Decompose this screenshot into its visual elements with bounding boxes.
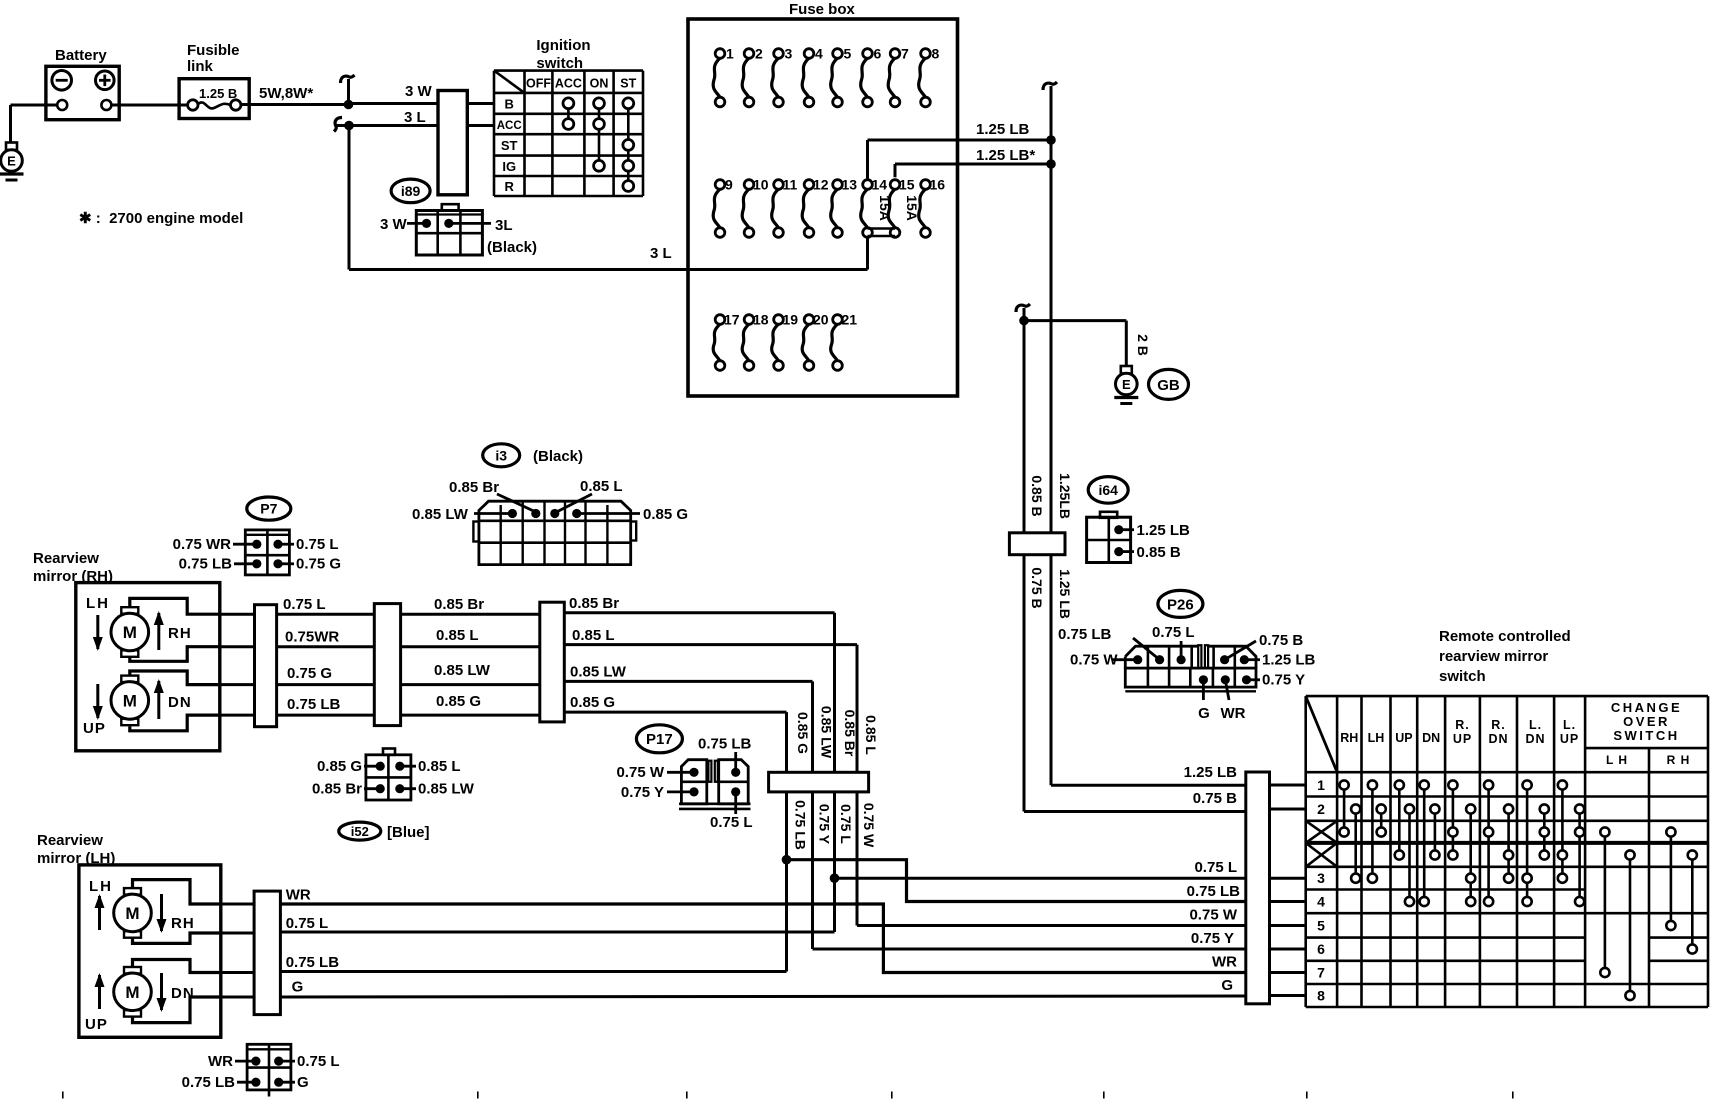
fuse 3 bbox=[772, 58, 779, 97]
i3 side tabs bbox=[473, 522, 479, 542]
fuse 19 bbox=[772, 324, 779, 361]
svg-text:4: 4 bbox=[1317, 894, 1325, 910]
svg-text:0.75 B: 0.75 B bbox=[1259, 632, 1303, 649]
junction 1.25LB* bbox=[1046, 159, 1056, 169]
P17 pin 0.75LB bbox=[731, 768, 740, 777]
arrow LH (down) bbox=[96, 615, 99, 649]
motor2 wiring bbox=[130, 671, 220, 731]
svg-text:15A: 15A bbox=[904, 195, 920, 221]
wire 0.85LW/0.75Y vertical bbox=[811, 681, 814, 772]
connector P7 bbox=[245, 530, 289, 575]
svg-text:i52: i52 bbox=[351, 824, 369, 839]
fuse 21 bbox=[831, 324, 838, 361]
i52 pin 0.85G bbox=[376, 762, 385, 771]
svg-text:1.25 LB: 1.25 LB bbox=[1137, 522, 1191, 539]
svg-text:0.75 L: 0.75 L bbox=[283, 596, 326, 613]
svg-text:0.85 Br: 0.85 Br bbox=[434, 596, 484, 613]
svg-text:15A: 15A bbox=[877, 195, 893, 221]
svg-text:0.85 B: 0.85 B bbox=[1029, 475, 1045, 516]
svg-text:7: 7 bbox=[1317, 965, 1325, 981]
fuse 15 bbox=[888, 189, 895, 228]
contact chain CO-LH b bbox=[1629, 855, 1632, 996]
connector i52 oval bbox=[339, 822, 381, 840]
svg-text:18: 18 bbox=[753, 312, 769, 328]
hook 0.85B top bbox=[1016, 304, 1030, 312]
svg-text:0.75 B: 0.75 B bbox=[1193, 790, 1237, 807]
fuse 8 bbox=[919, 58, 926, 97]
svg-text:6: 6 bbox=[874, 46, 882, 62]
svg-text:L H: L H bbox=[1606, 753, 1628, 767]
RH mirror connector bar 1 bbox=[220, 613, 255, 616]
inline connector bar (mirror harness) bbox=[769, 772, 869, 792]
wire 0.85G bbox=[564, 711, 786, 714]
svg-text:0.75 L: 0.75 L bbox=[710, 814, 753, 831]
svg-text:M: M bbox=[125, 983, 139, 1002]
i89 pin 3L bbox=[444, 219, 453, 228]
wire connector to ignition ACC bbox=[467, 124, 494, 127]
svg-text:UP: UP bbox=[83, 720, 106, 737]
fuse 14 bbox=[861, 189, 868, 228]
fuse 11 bbox=[772, 189, 779, 228]
svg-text:DN: DN bbox=[168, 694, 192, 711]
svg-text:RH: RH bbox=[171, 915, 195, 932]
svg-text:0.75 LB: 0.75 LB bbox=[698, 736, 752, 753]
svg-text:0.85 Br: 0.85 Br bbox=[312, 781, 362, 798]
svg-text:0.85 G: 0.85 G bbox=[795, 712, 811, 754]
fuse 1 bbox=[713, 58, 720, 97]
svg-text:3: 3 bbox=[1317, 870, 1325, 886]
svg-text:i64: i64 bbox=[1098, 482, 1118, 498]
svg-text:P17: P17 bbox=[646, 731, 673, 748]
wire connector to ignition B bbox=[467, 102, 494, 105]
svg-text:ST: ST bbox=[620, 77, 636, 91]
svg-text:DN: DN bbox=[1422, 731, 1440, 745]
svg-text:L.: L. bbox=[1563, 718, 1576, 732]
ground E (GB) bbox=[1121, 366, 1132, 374]
P7 pin 0.75L bbox=[273, 540, 282, 549]
fuse 2 bbox=[742, 58, 749, 97]
svg-text:0.75 Y: 0.75 Y bbox=[1262, 672, 1305, 689]
i52 pin 0.85L bbox=[395, 762, 404, 771]
P7 pin 0.75WR bbox=[252, 540, 261, 549]
svg-text:0.85 Br: 0.85 Br bbox=[449, 479, 499, 496]
svg-text:0.85 B: 0.85 B bbox=[1137, 544, 1181, 561]
motor RH-horizontal (M) bbox=[121, 607, 138, 614]
pin 0.75L bbox=[274, 1057, 283, 1066]
fuse 9 bbox=[713, 189, 720, 228]
svg-text:1.25 LB: 1.25 LB bbox=[1057, 569, 1073, 619]
ignition switch connector bbox=[438, 91, 467, 195]
P26 pin 0.75B bbox=[1220, 655, 1229, 664]
svg-text:0.85 LW: 0.85 LW bbox=[434, 662, 491, 679]
svg-text:0.75 W: 0.75 W bbox=[1189, 907, 1237, 924]
svg-text:[Blue]: [Blue] bbox=[387, 824, 430, 841]
connector P7 oval bbox=[247, 497, 291, 520]
junction 1.25LB bbox=[1046, 135, 1056, 145]
svg-text:0.85 G: 0.85 G bbox=[436, 693, 481, 710]
contact chain CO-LH a bbox=[1604, 832, 1607, 973]
svg-text:UP: UP bbox=[85, 1016, 108, 1033]
svg-text:0.75 Y: 0.75 Y bbox=[816, 804, 832, 845]
wires bar2-bar3 bbox=[401, 613, 540, 616]
svg-text:11: 11 bbox=[783, 177, 798, 193]
contact chain R.UP right bbox=[1469, 809, 1472, 902]
ignition switch table bbox=[494, 71, 643, 196]
wire 1.25LB vertical (right) bbox=[1050, 86, 1053, 785]
connector P17 oval bbox=[636, 725, 682, 753]
arrow DN (up) bbox=[157, 681, 160, 719]
svg-text:0.85 L: 0.85 L bbox=[436, 627, 479, 644]
svg-text:0.75 WR: 0.75 WR bbox=[173, 536, 232, 553]
svg-text:LH: LH bbox=[86, 595, 110, 612]
junction 0.75LB bbox=[782, 855, 792, 865]
svg-text:0.75 G: 0.75 G bbox=[296, 556, 341, 573]
connector i3 bbox=[479, 501, 631, 564]
wire 0.75L down to LH mirror bbox=[280, 931, 834, 934]
svg-text:6: 6 bbox=[1317, 941, 1325, 957]
svg-text:1.25LB: 1.25LB bbox=[1057, 473, 1073, 519]
svg-text:i3: i3 bbox=[495, 447, 507, 463]
ground E (battery) bbox=[6, 143, 17, 151]
connector i89 bbox=[442, 204, 459, 210]
contact chain L.UP left bbox=[1561, 785, 1564, 878]
i52 pin 0.85LW bbox=[395, 784, 404, 793]
i3 pin 0.85G bbox=[572, 509, 581, 518]
svg-text:1.25 B: 1.25 B bbox=[199, 86, 237, 101]
svg-text:i89: i89 bbox=[401, 183, 421, 199]
P26 key slot bbox=[1198, 645, 1201, 668]
wire 0.85LW bbox=[564, 680, 812, 683]
svg-text:3L: 3L bbox=[495, 217, 513, 234]
wire 0.75L to switch row3 bbox=[835, 877, 1246, 880]
contact chain UP left bbox=[1398, 785, 1401, 855]
svg-text:P7: P7 bbox=[260, 501, 277, 517]
ignition contact chain ST column bbox=[627, 103, 630, 186]
svg-text:2 B: 2 B bbox=[1135, 334, 1151, 356]
svg-text:2: 2 bbox=[1317, 801, 1325, 817]
svg-text:16: 16 bbox=[930, 177, 946, 193]
wire WR from LH mirror to switch row7 bbox=[280, 904, 1245, 973]
junction 2B branch bbox=[1019, 316, 1029, 326]
wire 0.85B vertical (left) bbox=[1023, 308, 1026, 812]
P26 pin 0.75LB bbox=[1155, 655, 1164, 664]
i3 pin 0.85L bbox=[550, 509, 559, 518]
fuse 17 bbox=[713, 324, 720, 361]
svg-text:1.25 LB: 1.25 LB bbox=[1262, 652, 1316, 669]
svg-text:M: M bbox=[123, 623, 137, 642]
svg-text:0.75 L: 0.75 L bbox=[296, 536, 339, 553]
svg-text:Rearview: Rearview bbox=[37, 832, 103, 849]
contact chain CO-RH b bbox=[1691, 855, 1694, 949]
svg-text:1.25 LB: 1.25 LB bbox=[1184, 764, 1238, 781]
svg-text:0.75 W: 0.75 W bbox=[1070, 652, 1118, 669]
svg-text:3 L: 3 L bbox=[650, 245, 672, 262]
svg-text:Fusible: Fusible bbox=[187, 42, 240, 59]
LH motor1 wiring bbox=[133, 880, 221, 944]
svg-text:0.85 Br: 0.85 Br bbox=[842, 710, 858, 757]
svg-text:DN: DN bbox=[1525, 732, 1545, 746]
connector i89 oval bbox=[391, 179, 430, 203]
svg-text:0.85 LW: 0.85 LW bbox=[418, 781, 475, 798]
svg-text:UP: UP bbox=[1395, 731, 1412, 745]
wire 1.25LB* from fuse 15 bbox=[894, 164, 897, 177]
svg-text:G: G bbox=[297, 1074, 309, 1091]
wire 0.75W to switch row5 bbox=[857, 924, 1246, 927]
svg-text:IG: IG bbox=[502, 159, 516, 174]
contact chain LH left bbox=[1371, 785, 1374, 878]
P26 pin 1.25LB bbox=[1240, 655, 1249, 664]
svg-text:0.85 G: 0.85 G bbox=[570, 694, 615, 711]
svg-text:GB: GB bbox=[1157, 377, 1180, 394]
contact chain L.DN left bbox=[1526, 785, 1529, 902]
connector continuation hook (5W,8W*) bbox=[347, 79, 350, 105]
connector i52 bbox=[383, 749, 395, 755]
fuse 20 bbox=[802, 324, 809, 361]
wire 1.25LB to switch row1 bbox=[1051, 784, 1246, 787]
P26 lower row bbox=[1125, 668, 1256, 687]
svg-text:5: 5 bbox=[1317, 918, 1325, 934]
contact chain R.UP left bbox=[1452, 785, 1455, 855]
svg-text:M: M bbox=[125, 904, 139, 923]
svg-text:8: 8 bbox=[932, 46, 940, 62]
svg-text:G: G bbox=[1198, 705, 1210, 722]
svg-text:G: G bbox=[292, 979, 304, 996]
wire 0.85Br bbox=[564, 611, 834, 614]
wire 0.85L/0.75W vertical bbox=[856, 645, 859, 773]
svg-text:17: 17 bbox=[724, 312, 740, 328]
svg-text:0.75 LB: 0.75 LB bbox=[287, 696, 341, 713]
svg-text:15: 15 bbox=[899, 177, 915, 193]
svg-text:8: 8 bbox=[1317, 988, 1325, 1004]
svg-text:14: 14 bbox=[872, 177, 888, 193]
motor1 wiring bbox=[130, 598, 220, 661]
svg-text:2: 2 bbox=[755, 46, 763, 62]
switch connector bar bbox=[1246, 772, 1270, 1004]
svg-text:✱ : 2700 engine model: ✱ : 2700 engine model bbox=[79, 210, 243, 227]
svg-text:(Black): (Black) bbox=[487, 239, 537, 256]
svg-text:0.75 W: 0.75 W bbox=[861, 803, 877, 848]
battery bbox=[46, 66, 119, 119]
svg-text:0.75 LB: 0.75 LB bbox=[1058, 626, 1112, 643]
svg-text:0.85 LW: 0.85 LW bbox=[570, 664, 627, 681]
contact chain DN right bbox=[1434, 809, 1437, 855]
arrow up (left) bbox=[98, 896, 101, 930]
i3 pin 0.85LW bbox=[508, 509, 517, 518]
svg-text:0.85 G: 0.85 G bbox=[643, 506, 688, 523]
bottom connector (LH mirror pins) bbox=[247, 1044, 291, 1090]
svg-text:WR: WR bbox=[1221, 705, 1246, 722]
motor LH-vertical (M) bbox=[124, 967, 141, 974]
connector i64 oval bbox=[1088, 477, 1128, 504]
contact chain R.DN right bbox=[1507, 809, 1510, 878]
svg-text:0.75 G: 0.75 G bbox=[287, 665, 332, 682]
svg-text:WR: WR bbox=[208, 1053, 233, 1070]
P17 key slot bbox=[708, 761, 711, 782]
svg-text:0.75 W: 0.75 W bbox=[616, 764, 664, 781]
X row markers bbox=[1306, 821, 1337, 843]
svg-text:0.75WR: 0.75WR bbox=[285, 629, 339, 646]
P7 pin 0.75G bbox=[273, 559, 282, 568]
wire G from LH mirror to switch row8 bbox=[280, 996, 1245, 997]
i52 pin 0.85Br bbox=[376, 784, 385, 793]
svg-text:RH: RH bbox=[1340, 731, 1358, 745]
arrow UP (down-arrow left) bbox=[96, 684, 99, 718]
svg-text:ON: ON bbox=[590, 77, 609, 91]
fusible link 1.25B bbox=[179, 79, 249, 119]
junction (3W) bbox=[344, 100, 354, 110]
svg-text:OFF: OFF bbox=[526, 77, 551, 91]
arrow down (right2) bbox=[160, 973, 163, 1010]
svg-text:0.75 L: 0.75 L bbox=[297, 1053, 340, 1070]
i3 pin 0.85Br bbox=[531, 509, 540, 518]
scan tick marks (page bottom) bbox=[62, 1092, 64, 1099]
wire 3L bottom run to fuse 14 bbox=[349, 268, 868, 271]
i64 pin 1.25LB bbox=[1114, 525, 1123, 534]
contact chain RH right bbox=[1354, 809, 1357, 878]
connector i64 bbox=[1100, 512, 1117, 518]
P26 pin 0.75W bbox=[1133, 655, 1142, 664]
svg-text:5W,8W*: 5W,8W* bbox=[259, 85, 313, 102]
P26 pin 0.75Y bbox=[1242, 675, 1251, 684]
svg-text:3: 3 bbox=[785, 46, 793, 62]
svg-text:0.75 LB: 0.75 LB bbox=[1187, 883, 1241, 900]
svg-text:E: E bbox=[7, 154, 16, 169]
svg-text:4: 4 bbox=[815, 46, 823, 62]
svg-text:switch: switch bbox=[536, 55, 583, 72]
rearview mirror LH box bbox=[79, 865, 221, 1037]
svg-text:Fuse box: Fuse box bbox=[789, 1, 856, 18]
pin 0.75LB bbox=[251, 1078, 260, 1087]
i89 pin 3W bbox=[422, 219, 431, 228]
svg-text:1.25 LB*: 1.25 LB* bbox=[976, 147, 1035, 164]
wire 0.75Y to switch row6 bbox=[813, 948, 1246, 951]
fuse 18 bbox=[742, 324, 749, 361]
remote mirror switch table bbox=[1306, 696, 1708, 1007]
wire battery negative to ground bbox=[11, 104, 58, 107]
contact chain DN left bbox=[1423, 785, 1426, 902]
P26 pin 0.75L bbox=[1177, 655, 1186, 664]
connector P17 bbox=[681, 760, 706, 804]
svg-text:R.: R. bbox=[1491, 718, 1506, 732]
table header diagonal bbox=[1306, 696, 1337, 772]
svg-text:0.75 L: 0.75 L bbox=[286, 915, 329, 932]
svg-text:M: M bbox=[123, 691, 137, 710]
fuse 16 bbox=[919, 189, 926, 228]
svg-text:R H: R H bbox=[1667, 753, 1691, 767]
pin G bbox=[274, 1078, 283, 1087]
svg-text:0.75 LB: 0.75 LB bbox=[286, 954, 340, 971]
svg-text:Battery: Battery bbox=[55, 47, 107, 64]
svg-text:0.75 Y: 0.75 Y bbox=[621, 784, 664, 801]
svg-text:12: 12 bbox=[813, 177, 829, 193]
arrow RH (up) bbox=[157, 613, 160, 650]
svg-text:9: 9 bbox=[725, 177, 733, 193]
arrow up (left2) bbox=[98, 975, 101, 1009]
svg-text:0.75 LB: 0.75 LB bbox=[792, 800, 808, 850]
svg-text:LH: LH bbox=[89, 878, 113, 895]
svg-text:0.85 L: 0.85 L bbox=[418, 758, 461, 775]
inline connector (1.25LB / 0.85B) bbox=[1009, 533, 1065, 555]
junction 0.75L bbox=[830, 873, 840, 883]
svg-text:UP: UP bbox=[1453, 732, 1472, 746]
svg-text:P26: P26 bbox=[1167, 596, 1194, 613]
ignition contact chain ACC column bbox=[567, 103, 570, 124]
svg-text:G: G bbox=[1221, 977, 1233, 994]
ground designator GB bbox=[1149, 369, 1189, 399]
svg-text:R: R bbox=[505, 179, 515, 194]
contact chain LH right bbox=[1380, 809, 1383, 832]
contact chain RH left bbox=[1343, 785, 1346, 832]
connector P26 oval bbox=[1158, 590, 1203, 617]
svg-text:0.75 LB: 0.75 LB bbox=[179, 556, 233, 573]
svg-text:0.75 B: 0.75 B bbox=[1029, 567, 1045, 608]
P17 pin 0.75L bbox=[731, 787, 740, 796]
svg-text:0.85 LW: 0.85 LW bbox=[412, 506, 469, 523]
fuse 5 bbox=[831, 58, 838, 97]
arrow down (right) bbox=[160, 894, 163, 931]
svg-text:3 W: 3 W bbox=[405, 83, 433, 100]
P26 pin G bbox=[1199, 675, 1208, 684]
svg-text:0.85 LW: 0.85 LW bbox=[818, 706, 834, 759]
svg-text:ACC: ACC bbox=[497, 120, 522, 132]
wire 0.85L bbox=[564, 643, 857, 646]
svg-text:R.: R. bbox=[1455, 718, 1470, 732]
wire battery positive to fusible link bbox=[111, 104, 187, 107]
fuse 6 bbox=[861, 58, 868, 97]
svg-text:0.85 L: 0.85 L bbox=[572, 627, 615, 644]
svg-text:B: B bbox=[505, 97, 514, 112]
wire 0.85Br/0.75L vertical bbox=[833, 613, 836, 773]
fuse 7 bbox=[888, 58, 895, 97]
contact chain UP right bbox=[1408, 809, 1411, 902]
svg-text:20: 20 bbox=[813, 312, 829, 328]
P17 pin 0.75Y bbox=[689, 787, 698, 796]
contact chain CO-RH a bbox=[1670, 832, 1673, 926]
P7 pin 0.75LB bbox=[252, 559, 261, 568]
svg-text:1.25 LB: 1.25 LB bbox=[976, 121, 1030, 138]
wire 3W bbox=[349, 102, 439, 105]
LH motor2 wiring bbox=[133, 960, 221, 1023]
fuse 13 bbox=[831, 189, 838, 228]
svg-text:ACC: ACC bbox=[555, 77, 582, 91]
svg-text:7: 7 bbox=[901, 46, 909, 62]
svg-text:19: 19 bbox=[783, 312, 799, 328]
svg-text:RH: RH bbox=[168, 625, 192, 642]
svg-text:13: 13 bbox=[842, 177, 858, 193]
rearview mirror RH box bbox=[76, 583, 220, 751]
contact chain R.DN left bbox=[1487, 785, 1490, 902]
wire 1.25LB from fuse 14 bbox=[866, 140, 869, 180]
svg-text:0.75 L: 0.75 L bbox=[1152, 624, 1195, 641]
wire 3L vertical drop bbox=[348, 126, 351, 270]
motor LH-horizontal (M) bbox=[124, 888, 141, 895]
fuse 10 bbox=[742, 189, 749, 228]
fuse 4 bbox=[802, 58, 809, 97]
svg-text:ST: ST bbox=[501, 138, 518, 153]
svg-text:3 L: 3 L bbox=[404, 109, 426, 126]
svg-text:OVER: OVER bbox=[1623, 714, 1670, 729]
hook 1.25LB top bbox=[1043, 82, 1057, 90]
RH mirror connector bar 3 bbox=[540, 602, 565, 722]
svg-text:Remote controlled: Remote controlled bbox=[1439, 628, 1571, 645]
fuse box bbox=[688, 19, 958, 396]
svg-text:L.: L. bbox=[1529, 718, 1542, 732]
bottom connector center line extension bbox=[268, 1090, 271, 1097]
svg-text:1: 1 bbox=[1317, 777, 1325, 793]
junction (3L) bbox=[344, 121, 354, 131]
contact chain L.UP right bbox=[1578, 809, 1581, 902]
stubs bar to table bbox=[1270, 784, 1306, 787]
